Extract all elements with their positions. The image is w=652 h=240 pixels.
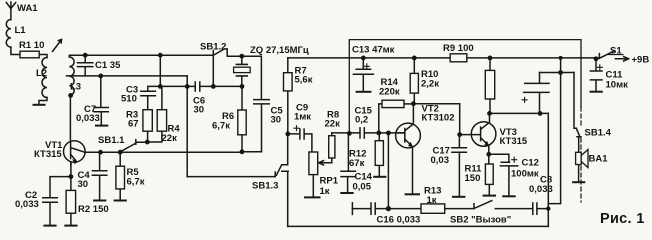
resistor R11 xyxy=(485,164,493,184)
resistor R6 xyxy=(238,110,246,135)
node junction C6 left xyxy=(185,84,190,89)
wire VT1 emitter node xyxy=(50,163,71,198)
ground under R12 xyxy=(374,176,385,178)
inductor L1 xyxy=(6,20,11,48)
ground under RP1 xyxy=(305,196,320,198)
node junction R3-R4 branch on antenna bus xyxy=(158,53,163,58)
core arrow of transformer xyxy=(53,40,62,52)
capacitor C16 xyxy=(371,203,375,214)
capacitor C1 xyxy=(78,55,93,76)
wire RP1 wiper to R8 xyxy=(319,158,332,165)
node junction C1 top on antenna bus xyxy=(83,53,88,58)
ground under C17 xyxy=(453,196,465,198)
wire SB1.3 line xyxy=(187,176,275,178)
switch S1 xyxy=(599,51,613,58)
plus sign C9 xyxy=(294,126,299,131)
svg-text:C12: C12 xyxy=(522,158,539,169)
resistor R13 xyxy=(421,204,445,213)
svg-text:1к: 1к xyxy=(427,195,437,206)
wire VT3 emitter node xyxy=(489,146,509,164)
node L3 tap line xyxy=(67,75,188,77)
svg-text:220к: 220к xyxy=(379,87,400,98)
node junction C10 branch on supply bus xyxy=(559,56,563,60)
wire R15 stems xyxy=(489,58,491,113)
capacitor C5 xyxy=(254,100,269,152)
node junction R10 bottom / R14 right / VT2 collector xyxy=(411,101,416,106)
wire R14 right stem xyxy=(404,103,413,105)
capacitor C2 xyxy=(43,198,57,225)
capacitor C15 xyxy=(360,128,364,138)
wire VT2 emitter xyxy=(412,148,414,194)
wire collector line VT1 xyxy=(85,142,262,152)
svg-text:SB2 "Вызов": SB2 "Вызов" xyxy=(450,215,511,226)
svg-text:30: 30 xyxy=(78,179,89,190)
ground under C7 xyxy=(96,125,107,127)
shield box around oscillator xyxy=(349,40,581,134)
node junction L3 bottom / VT1 base xyxy=(68,93,73,98)
wire x560 vertical down xyxy=(548,73,560,204)
node junction C4 top on VT1 collector line xyxy=(98,150,103,155)
node junction C11 top / S1 xyxy=(594,56,599,61)
wire node72 horizontal xyxy=(540,72,575,74)
node junction C13 top on supply bus xyxy=(361,56,366,61)
capacitor C17 xyxy=(452,135,467,197)
wire R7 bottom to node xyxy=(287,91,289,134)
wire R7 top xyxy=(287,58,289,73)
wire R10 bottom to VT2 collector node xyxy=(412,93,415,123)
svg-text:0,033: 0,033 xyxy=(76,113,100,124)
node junction R15 bottom / VT3 collector xyxy=(487,111,492,116)
svg-text:30: 30 xyxy=(271,115,282,126)
svg-text:R2 150: R2 150 xyxy=(78,204,109,215)
wire L2 to ground xyxy=(39,98,47,105)
wire node72 stub to bus xyxy=(560,58,562,73)
svg-text:ZQ 27,15МГц: ZQ 27,15МГц xyxy=(250,45,309,56)
node junction C10 bottom on collector line xyxy=(538,111,543,116)
node junction R15 top on supply bus xyxy=(488,56,493,61)
wire RP1 to ground xyxy=(312,175,314,197)
svg-text:10мк: 10мк xyxy=(606,80,629,91)
wire R12 stems xyxy=(378,133,380,177)
capacitor C8 xyxy=(533,203,537,214)
node junction R6 bottom on collector line xyxy=(240,149,245,154)
shield box dashed right edge xyxy=(580,107,582,202)
svg-text:2,2к: 2,2к xyxy=(421,79,439,90)
svg-text:C16 0,033: C16 0,033 xyxy=(377,215,421,226)
svg-text:L3: L3 xyxy=(70,82,81,93)
switch SB2 xyxy=(474,201,492,209)
wire VT3 collector line to C10 xyxy=(490,113,549,121)
resistor R10 xyxy=(410,73,418,93)
plus sign C11 xyxy=(597,65,602,70)
wire R10 top stem xyxy=(413,58,415,74)
node junction R5 top / SB1.1 blade xyxy=(118,150,123,155)
svg-text:Рис. 1: Рис. 1 xyxy=(600,211,645,227)
node junction C16 right on call line xyxy=(386,206,391,211)
crystal ZQ stems xyxy=(241,56,243,86)
svg-text:100мк: 100мк xyxy=(511,169,539,180)
wire VT2 base coupling down to VT3 base xyxy=(413,104,459,135)
node junction C10 top node xyxy=(558,70,563,75)
ground under C11 xyxy=(591,91,602,93)
wire L3 bottom to VT1 base xyxy=(69,95,70,141)
svg-text:L1: L1 xyxy=(15,25,27,36)
wire R8 top xyxy=(331,133,333,136)
node junction shield box edge / C14 top xyxy=(347,131,352,136)
svg-text:SB1.2: SB1.2 xyxy=(200,42,226,53)
svg-text:C1 35: C1 35 xyxy=(95,60,121,71)
wire R14 left stem xyxy=(379,104,382,133)
crystal ZQ body xyxy=(234,67,251,72)
switch SB1.4 xyxy=(574,73,581,153)
inductor L3 xyxy=(69,57,74,95)
svg-text:6,7к: 6,7к xyxy=(212,121,230,132)
resistor R15 xyxy=(485,70,494,99)
ground under VT2 emitter xyxy=(406,193,419,195)
capacitor C14 xyxy=(341,133,355,192)
transistor VT1 xyxy=(64,141,86,163)
svg-text:22к: 22к xyxy=(325,119,341,130)
transistor VT2 xyxy=(396,123,421,148)
wire top bus left (L3 top to SB1.2) xyxy=(69,55,213,57)
resistor R5 xyxy=(116,166,125,189)
resistor R9 xyxy=(450,54,467,62)
svg-text:5,6к: 5,6к xyxy=(295,75,313,86)
svg-text:R9 100: R9 100 xyxy=(443,43,474,54)
node junction VT3 base / C17 top xyxy=(457,132,462,137)
svg-text:67к: 67к xyxy=(349,158,365,169)
capacitor C10 xyxy=(524,73,549,114)
svg-text:0,03: 0,03 xyxy=(431,155,450,166)
ground under R2 xyxy=(65,225,76,227)
node junction R10 top on supply bus xyxy=(412,56,417,61)
resistor R2 xyxy=(66,190,76,213)
svg-text:150: 150 xyxy=(465,173,481,184)
capacitor C4 xyxy=(92,152,106,200)
svg-text:RP1: RP1 xyxy=(320,176,339,187)
wire R5 stems xyxy=(119,152,121,200)
wire L1 to R1 xyxy=(11,47,20,54)
wire C16 line xyxy=(352,208,548,210)
svg-text:L2: L2 xyxy=(36,68,47,79)
node junction VT2 base line / C16 branch xyxy=(386,131,391,136)
node junction VT1 emitter / C2 / R2 xyxy=(69,174,74,179)
wire bottom rail xyxy=(288,225,549,227)
svg-text:КТ315: КТ315 xyxy=(34,149,62,160)
svg-text:C13 47мк: C13 47мк xyxy=(352,45,395,56)
switch SB1.1 blade xyxy=(121,140,136,152)
svg-text:R1 10: R1 10 xyxy=(19,40,44,51)
svg-text:КТ315: КТ315 xyxy=(500,136,528,147)
svg-text:0,2: 0,2 xyxy=(355,115,368,126)
wire R2 to ground xyxy=(70,213,72,225)
svg-text:0,033: 0,033 xyxy=(529,184,553,195)
svg-text:1мк: 1мк xyxy=(294,112,311,123)
ground under L2 xyxy=(34,104,45,106)
crystal ZQ plates xyxy=(236,64,247,76)
arrow to +9V xyxy=(615,57,628,61)
svg-text:BA1: BA1 xyxy=(589,154,609,165)
wire SB1.3 blade vertical xyxy=(287,134,289,165)
svg-text:30: 30 xyxy=(194,105,205,116)
ground under C13 xyxy=(357,91,371,93)
svg-text:S1: S1 xyxy=(610,46,622,57)
wire R6 stems xyxy=(241,86,243,151)
wire C6 line xyxy=(160,85,242,87)
ground under C4 xyxy=(94,200,105,202)
potentiometer RP1 xyxy=(309,152,318,175)
node junction VT3 emitter / R11 / C12 xyxy=(486,152,491,157)
svg-text:22к: 22к xyxy=(162,133,178,144)
svg-text:67: 67 xyxy=(128,119,139,130)
svg-text:510: 510 xyxy=(121,94,137,105)
node junction R3-R4 bottoms / SB1.1 contact xyxy=(145,140,150,145)
svg-text:1к: 1к xyxy=(320,186,330,197)
wire R1 to L2 xyxy=(39,55,47,58)
svg-text:WA1: WA1 xyxy=(17,3,38,14)
capacitor C12 xyxy=(500,162,517,196)
wire BA1 to ground xyxy=(578,165,580,182)
resistor R14 xyxy=(382,100,404,107)
speaker BA1 xyxy=(576,152,582,164)
node junction C6 right / SB1.2 lower xyxy=(211,84,216,89)
ground under BA1 xyxy=(573,181,584,183)
wire tap line down (x187) xyxy=(186,76,188,177)
node junction R7 bottom / C9 / SB1.3 xyxy=(285,132,290,137)
resistor R7 xyxy=(284,73,293,91)
svg-text:+9В: +9В xyxy=(632,55,650,66)
resistor R8 xyxy=(329,136,335,158)
wire x388 vertical C15line to C16line xyxy=(387,133,389,209)
capacitor C11 xyxy=(590,59,602,92)
capacitor C3 xyxy=(141,91,156,109)
capacitor C7 xyxy=(94,76,108,125)
transistor VT3 xyxy=(471,122,496,147)
capacitor C13 xyxy=(353,58,373,92)
wire C16 line left tick xyxy=(351,203,353,215)
node junction C8 line / rail vertical xyxy=(546,206,550,210)
ground under C14 xyxy=(341,192,352,194)
ground under R11 xyxy=(484,195,495,197)
ground under C12 xyxy=(503,195,514,197)
capacitor C6 xyxy=(195,82,200,91)
plus sign C12 xyxy=(512,157,517,162)
resistor R3 xyxy=(143,110,152,132)
switch SB1.3 xyxy=(275,165,288,227)
plus sign C10 xyxy=(522,97,527,102)
svg-text:SB1.4: SB1.4 xyxy=(585,128,612,139)
inductor L2 xyxy=(42,58,47,98)
wire bus x160 down xyxy=(159,55,161,86)
node junction C7 top on L3 tap line xyxy=(98,74,103,79)
ground under R5 xyxy=(115,200,126,202)
node junction C3 branch on C6 line xyxy=(158,84,163,89)
svg-text:SB1.1: SB1.1 xyxy=(98,135,125,146)
switch SB1.2 xyxy=(213,49,242,87)
svg-text:0,033: 0,033 xyxy=(15,199,39,210)
resistor R3 chain from C6line xyxy=(148,86,161,91)
resistor R12 xyxy=(375,141,383,166)
wire top bus right xyxy=(288,57,600,59)
underline S1 xyxy=(609,54,624,56)
node junction ZQ top on antenna bus xyxy=(239,54,244,59)
wire R4 stems xyxy=(147,86,162,142)
resistor R4 xyxy=(157,110,166,132)
svg-text:0,05: 0,05 xyxy=(353,182,372,193)
wire crystal dot to C5 xyxy=(242,56,262,99)
antenna WA1 xyxy=(6,2,15,20)
ground under C2 xyxy=(44,225,55,227)
wire x548 vertical down to rail xyxy=(547,113,549,226)
resistor R1 xyxy=(20,51,39,58)
plus sign C13 xyxy=(364,64,369,69)
node junction R14 left / R12 top xyxy=(376,131,381,136)
svg-text:КТ3102: КТ3102 xyxy=(422,113,455,124)
capacitor C9 xyxy=(288,129,312,152)
wire R3 bottom to node xyxy=(147,131,149,142)
svg-text:6,7к: 6,7к xyxy=(127,177,145,188)
wire C15 line xyxy=(332,132,405,134)
svg-text:SB1.3: SB1.3 xyxy=(252,181,278,192)
wire R11 to ground xyxy=(488,184,490,195)
node junction ZQ bottom / R6 top xyxy=(240,84,245,89)
